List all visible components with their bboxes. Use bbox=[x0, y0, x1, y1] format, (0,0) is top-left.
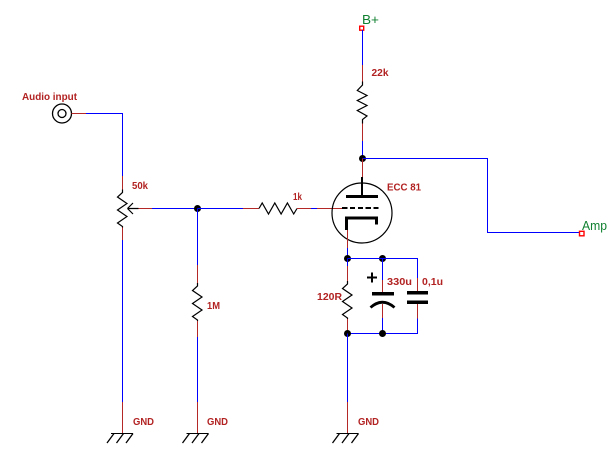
svg-text:50k: 50k bbox=[132, 181, 148, 192]
pin wiper bbox=[139, 208, 153, 210]
wire bottom rail to ground bbox=[347, 334, 349, 403]
svg-text:22k: 22k bbox=[372, 68, 389, 79]
resistor 1M top pin bbox=[197, 265, 199, 283]
node C (cathode node) bbox=[344, 255, 351, 262]
capacitor 0,1u top plate bbox=[407, 291, 428, 295]
ground symbol right bbox=[333, 434, 359, 444]
wire wiper to node B bbox=[152, 208, 198, 210]
node D (330u top) bbox=[379, 255, 386, 262]
connector J1 (audio input jack) bbox=[53, 104, 72, 123]
wire node B down to 1M bbox=[197, 209, 199, 266]
pin cathode bbox=[347, 230, 349, 248]
potentiometer 50k top pin bbox=[122, 176, 124, 190]
svg-text:B+: B+ bbox=[362, 12, 379, 27]
tube cathode bbox=[345, 218, 378, 230]
capacitor 0,1u bottom pin bbox=[417, 304, 419, 319]
wire 22k to anode node bbox=[362, 141, 364, 159]
capacitor 0,1u top pin bbox=[417, 278, 419, 291]
pin grid bbox=[317, 208, 342, 210]
resistor 120R bottom pin bbox=[347, 319, 349, 334]
node E (120R bottom) bbox=[344, 330, 351, 337]
tube anode lead bbox=[361, 177, 363, 196]
wire cathode top rail bbox=[348, 259, 418, 279]
svg-text:Audio input: Audio input bbox=[22, 92, 78, 103]
svg-text:ECC 81: ECC 81 bbox=[387, 183, 421, 194]
resistor 1k body bbox=[259, 203, 297, 214]
pin anode bbox=[362, 159, 364, 178]
node B (grid node) bbox=[194, 205, 201, 212]
terminal B+ bbox=[360, 26, 364, 30]
resistor 1M body bbox=[193, 283, 203, 321]
potentiometer 50k wiper arrow bbox=[128, 203, 139, 214]
resistor 1k left pin bbox=[243, 208, 259, 210]
wire 330u to bottom rail bbox=[382, 318, 384, 334]
capacitor 330u bottom pin bbox=[382, 304, 384, 318]
potentiometer 50k body bbox=[118, 190, 128, 228]
potentiometer 50k bottom pin bbox=[122, 228, 124, 241]
wire node C to 120R bbox=[347, 259, 349, 267]
wire pot bottom down bbox=[122, 240, 124, 402]
capacitor 0,1u bottom plate bbox=[407, 301, 428, 305]
capacitor 330u top plate bbox=[372, 292, 394, 296]
pin J1 right bbox=[72, 113, 87, 115]
svg-text:120R: 120R bbox=[317, 292, 343, 303]
wire input jack to pot top bbox=[86, 114, 123, 177]
ground symbol middle bbox=[183, 434, 209, 444]
wire cathode to node C bbox=[347, 248, 349, 259]
wire 1M to ground bbox=[197, 337, 199, 402]
resistor 22k bottom pin bbox=[362, 124, 364, 142]
svg-text:330u: 330u bbox=[387, 277, 412, 288]
svg-text:GND: GND bbox=[358, 417, 379, 428]
svg-text:1M: 1M bbox=[207, 301, 220, 312]
resistor 120R top pin bbox=[347, 266, 349, 281]
resistor 120R body bbox=[343, 281, 353, 319]
svg-text:GND: GND bbox=[207, 417, 228, 428]
tube anode plate bbox=[346, 195, 378, 198]
ground pin left bbox=[122, 402, 124, 433]
tube grid (dashed) bbox=[342, 207, 379, 209]
terminal Amp bbox=[580, 231, 585, 236]
wire B+ to 22k bbox=[362, 30, 364, 65]
capacitor 330u plus sign bbox=[367, 273, 377, 283]
resistor 1M bottom pin bbox=[197, 321, 199, 337]
ground pin right bbox=[347, 402, 349, 433]
svg-text:1k: 1k bbox=[293, 192, 302, 203]
capacitor 330u bottom plate (curved) bbox=[371, 302, 395, 307]
resistor 22k top pin bbox=[362, 65, 364, 82]
wire 0,1u to bottom rail bbox=[348, 319, 418, 334]
resistor 22k body bbox=[357, 82, 367, 124]
node A (anode node) bbox=[359, 155, 366, 162]
node F (330u bottom) bbox=[379, 330, 386, 337]
ground symbol left bbox=[107, 434, 133, 444]
svg-text:0,1u: 0,1u bbox=[422, 277, 443, 288]
ground pin middle bbox=[197, 402, 199, 433]
svg-text:GND: GND bbox=[133, 417, 154, 428]
resistor 1k right pin bbox=[297, 208, 311, 210]
wire node D down bbox=[382, 259, 384, 281]
tube ECC81 envelope bbox=[332, 183, 392, 243]
svg-text:Amp: Amp bbox=[582, 218, 607, 233]
wire anode node to Amp terminal bbox=[363, 159, 580, 233]
wire 1k to grid pin bbox=[311, 208, 317, 210]
wire node B to 1k bbox=[198, 208, 244, 210]
capacitor 330u top pin bbox=[382, 280, 384, 292]
